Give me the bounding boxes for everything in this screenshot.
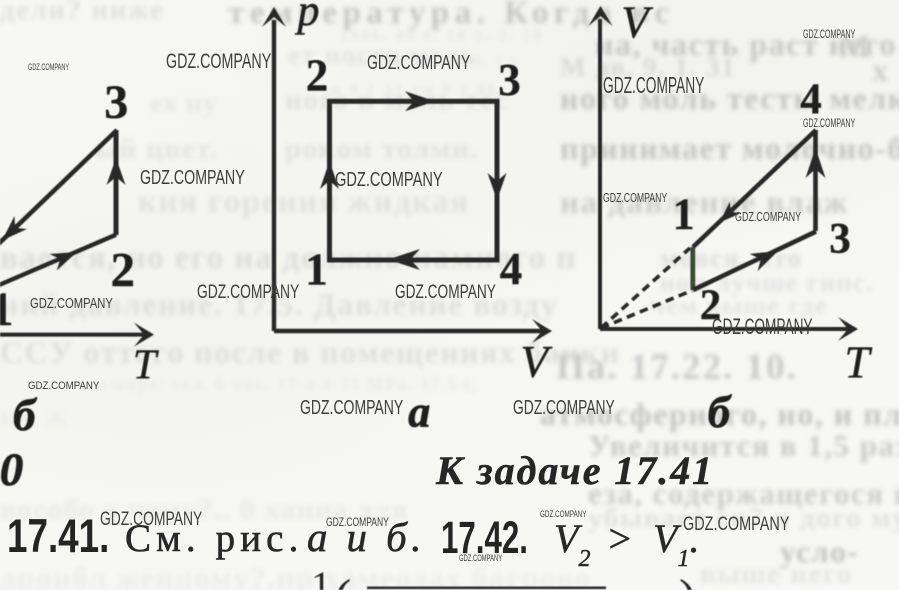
left diagram: process line 2-3 [107,130,126,235]
svg-text:1: 1 [305,245,328,295]
svg-text:T: T [133,343,159,389]
answer text: См. рис. [125,519,303,558]
GHOST LAYER [0,0,899,1]
middle diagram: arrow on edge 4-1 (left) [388,249,420,270]
watermark small above а и б [326,516,389,528]
watermark on right T axis [712,316,813,338]
svg-text:3: 3 [498,55,521,105]
watermark left of p axis [166,51,271,72]
svg-text:1: 1 [311,563,331,590]
middle diagram: V axis [274,319,552,343]
right diagram: process line 2-3 [693,232,816,291]
watermark tiny left row4 [28,381,99,392]
watermark above 17.41 [100,510,202,529]
watermark right of p axis [367,53,470,73]
right diagram: process line 4-1 [693,130,816,247]
answer inequality V2 > V1. [554,519,699,571]
svg-text:0: 0 [0,444,23,496]
svg-text:2: 2 [306,51,329,101]
left diagram: process line 3-4 exiting left edge [0,130,117,246]
svg-text:а: а [408,388,430,437]
svg-text:1: 1 [673,190,695,239]
svg-text:б: б [13,390,37,440]
watermark left row3 [197,283,299,302]
watermark tiny in formula row [459,554,502,563]
svg-text:4: 4 [500,244,523,294]
middle diagram: arrow on edge 1-2 (up) [320,161,339,189]
svg-text:): ) [679,570,696,590]
middle diagram: arrow on edge 2-3 (right) [405,91,435,111]
left diagram: process line 1-2 [0,235,116,288]
svg-text:2: 2 [111,242,136,297]
right diagram: dashed line origin to 1 [601,248,690,328]
left diagram: T axis [0,323,154,347]
svg-text:1: 1 [0,283,14,336]
middle diagram: p axis [262,7,286,331]
watermark near label a [300,398,403,418]
watermark right of right V axis [603,74,704,98]
watermark tiny under label 4 [803,117,855,129]
watermark middle mid [335,170,443,190]
TEXT LAYER [0,0,899,1]
svg-text:(: ( [334,570,351,590]
right diagram: process line 3-4 [806,130,826,231]
watermark tiny top-right [803,28,855,40]
watermark tiny left row3 [30,296,113,311]
svg-text:V: V [520,337,552,387]
watermark tiny above V2 [540,510,586,519]
svg-text:б: б [708,387,732,437]
watermark right of V1 [683,515,789,534]
svg-text:T: T [844,337,872,387]
caption: К задаче 17.41 [436,451,714,491]
watermark small near label 1 right diagram [603,191,667,204]
svg-text:3: 3 [104,76,128,129]
svg-text:p: p [295,0,320,35]
answer text: а и б. [307,517,426,558]
right diagram: T axis [600,317,858,341]
watermark small mid right diagram [735,210,801,223]
watermark tiny top-left [28,63,69,72]
bottom formula fragment: digit 1, opening bracket, radical bar, closing bracket [311,563,696,590]
watermark middle row3 [395,283,496,302]
watermark left mid [140,168,245,188]
middle diagram: arrow on edge 3-4 (down) [488,173,507,200]
answer number 17.41. [7,513,109,561]
middle diagram: cycle square 1-2-3-4 [330,101,498,260]
svg-text:3: 3 [829,216,851,263]
answer number 17.42. [441,515,528,560]
right diagram: process line 1-2 (green tinted) [690,247,695,290]
watermark near label б right [513,398,615,418]
right diagram: V axis [589,6,613,329]
WATERMARK LAYER [0,0,899,1]
svg-text:V: V [621,0,653,48]
right diagram: dashed line origin to 2 [601,291,692,329]
